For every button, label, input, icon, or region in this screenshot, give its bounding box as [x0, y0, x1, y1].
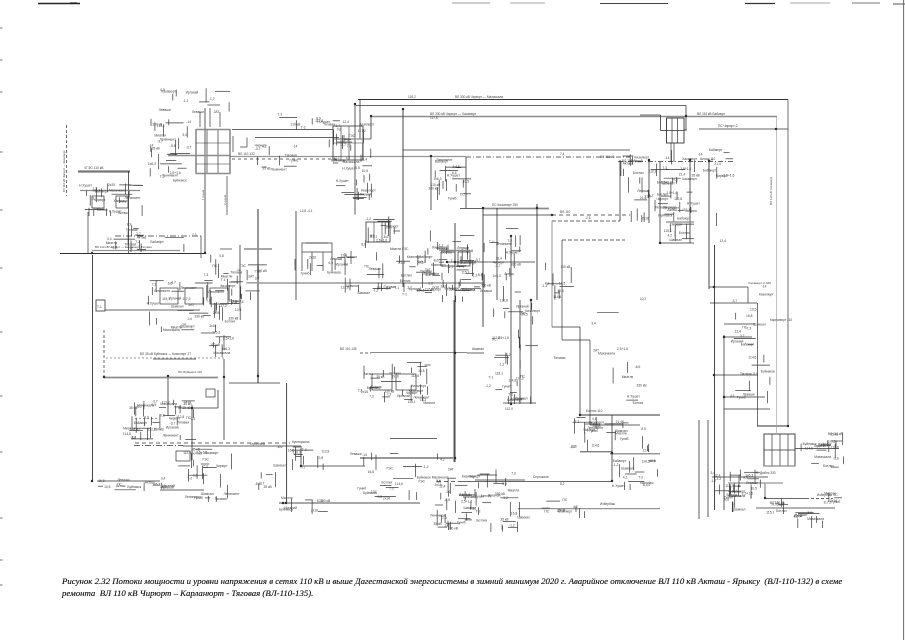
svg-text:ПС: ПС — [365, 264, 370, 268]
wire bottom long dashed — [437, 481, 612, 483]
svg-text:Н.Хушет: Н.Хушет — [447, 174, 460, 178]
svg-text:114,6: 114,6 — [591, 444, 599, 448]
svg-text:Т-2: Т-2 — [506, 353, 511, 357]
svg-text:Шамхал: Шамхал — [733, 507, 746, 511]
svg-text:1x6,3: 1x6,3 — [148, 162, 156, 166]
svg-text:Акташ 110: Акташ 110 — [700, 157, 716, 161]
svg-text:Акташ: Акташ — [504, 272, 514, 276]
svg-text:ВЛ-110-132: ВЛ-110-132 — [238, 152, 255, 156]
svg-text:Т-2: Т-2 — [302, 448, 307, 452]
svg-text:ВЛ 110 кВ: ВЛ 110 кВ — [770, 501, 785, 505]
svg-text:110 кВ: 110 кВ — [561, 265, 572, 269]
svg-text:-14: -14 — [665, 156, 670, 160]
svg-text:Ленинкент: Ленинкент — [436, 158, 453, 162]
svg-text:21,4: 21,4 — [398, 261, 405, 265]
svg-text:Махачкала: Махачкала — [109, 189, 126, 193]
svg-text:16,8: 16,8 — [288, 448, 295, 452]
substation cluster S — [469, 470, 530, 533]
scan marks top-right — [745, 2, 880, 5]
svg-text:Леваши: Леваши — [457, 246, 469, 250]
node box left top — [96, 300, 105, 311]
svg-text:Шамхал: Шамхал — [515, 397, 528, 401]
svg-text:4,2: 4,2 — [573, 505, 578, 509]
svg-text:ГЭС: ГЭС — [255, 269, 262, 273]
svg-text:35 кВ: 35 кВ — [692, 174, 701, 178]
svg-text:Чирюрт: Чирюрт — [216, 464, 228, 468]
svg-text:Ленинкент: Ленинкент — [224, 492, 241, 496]
comp far-right small — [832, 441, 842, 448]
svg-text:21,4: 21,4 — [714, 162, 721, 166]
svg-text:Т-2: Т-2 — [489, 240, 494, 244]
svg-text:3,4: 3,4 — [191, 417, 196, 421]
svg-text:Чирюрт: Чирюрт — [387, 225, 399, 229]
svg-text:7,3: 7,3 — [192, 233, 197, 237]
svg-text:12,4: 12,4 — [447, 265, 454, 269]
svg-text:ПС: ПС — [742, 326, 747, 330]
substation KES cluster — [302, 243, 332, 271]
svg-text:Т-2: Т-2 — [638, 476, 643, 480]
svg-text:330 кВ: 330 кВ — [511, 262, 522, 266]
svg-text:12,4: 12,4 — [643, 448, 650, 452]
wire big loop bottom corner — [757, 303, 788, 426]
svg-text:7,3: 7,3 — [345, 138, 350, 142]
svg-text:Махачкала: Махачкала — [343, 160, 360, 164]
svg-text:0,8: 0,8 — [160, 413, 165, 417]
svg-text:Ботлих: Ботлих — [633, 171, 644, 175]
svg-text:7,3: 7,3 — [347, 144, 352, 148]
substation cluster M — [710, 470, 745, 513]
substation Chiryurt box grid — [196, 130, 233, 174]
svg-text:-3,7: -3,7 — [111, 246, 117, 250]
svg-text:-14: -14 — [762, 284, 767, 288]
wire x520 vertical — [519, 300, 521, 404]
svg-text:Ботлих: Ботлих — [476, 518, 487, 522]
wire bottom right bus — [518, 508, 660, 510]
svg-text:Шамхал: Шамхал — [753, 323, 766, 327]
svg-text:Леваши: Леваши — [350, 452, 362, 456]
svg-text:7,4: 7,4 — [560, 152, 565, 156]
substation cluster bottom gray labels — [279, 496, 331, 514]
svg-text:Ботлих 110: Ботлих 110 — [586, 409, 603, 413]
wire y409 branch — [724, 408, 770, 410]
svg-text:-1,2: -1,2 — [209, 97, 215, 101]
svg-text:Миатли: Миатли — [622, 375, 634, 379]
svg-text:16,8: 16,8 — [418, 369, 425, 373]
bus stub right box bottom — [764, 465, 795, 467]
wire second horizontal — [356, 106, 686, 131]
svg-text:Ботлих: Ботлих — [371, 385, 382, 389]
svg-text:ВЛ-110-Л: ВЛ-110-Л — [622, 159, 635, 163]
wire y376 gray bus — [104, 359, 280, 440]
svg-text:ВЛ 110 кВ Бабаюрт: ВЛ 110 кВ Бабаюрт — [697, 112, 726, 116]
wire x240 vertical — [239, 245, 241, 310]
svg-text:Н.Хушет: Н.Хушет — [666, 206, 679, 210]
svg-text:-3,7: -3,7 — [495, 264, 501, 268]
substation cluster W — [815, 432, 843, 452]
svg-text:Буйнакск: Буйнакск — [279, 508, 293, 512]
svg-text:-3,7: -3,7 — [340, 143, 346, 147]
svg-text:Ирганай: Ирганай — [516, 304, 529, 308]
wire third horizontal gray — [370, 116, 777, 118]
svg-text:330 кВ: 330 кВ — [495, 492, 506, 496]
svg-text:16,8: 16,8 — [746, 314, 753, 318]
svg-text:3,4: 3,4 — [591, 322, 596, 326]
svg-text:2АТ: 2АТ — [188, 303, 194, 307]
substation cluster D3 — [204, 249, 233, 278]
svg-text:ГЭС: ГЭС — [419, 480, 426, 484]
svg-text:Шамхал: Шамхал — [621, 467, 634, 471]
wire y353 horizontal — [360, 352, 484, 355]
svg-text:Леваши: Леваши — [746, 481, 758, 485]
wire y477 right horizontal — [712, 476, 768, 478]
svg-text:Шамхал: Шамхал — [464, 506, 477, 510]
svg-text:Гуниб: Гуниб — [290, 159, 299, 163]
svg-text:117,6: 117,6 — [430, 116, 438, 120]
svg-text:Буйнакск: Буйнакск — [462, 288, 476, 292]
wire y451 horizontal — [580, 451, 612, 453]
svg-text:1 линия: 1 линия — [201, 189, 205, 200]
svg-text:8,2: 8,2 — [560, 482, 565, 486]
svg-text:Ирганай: Ирганай — [336, 262, 349, 266]
svg-text:ГЭС: ГЭС — [387, 467, 394, 471]
svg-text:Бабаюрт: Бабаюрт — [703, 168, 717, 172]
bus branch labels right — [731, 284, 776, 403]
svg-text:112,8: 112,8 — [500, 299, 508, 303]
wire left long vertical — [92, 255, 94, 481]
svg-text:35 кВ: 35 кВ — [264, 485, 273, 489]
substation cluster Q2 — [130, 418, 150, 440]
svg-text:Чирюрт: Чирюрт — [436, 246, 448, 250]
svg-text:-3,7: -3,7 — [186, 145, 192, 149]
substation cluster BB — [436, 246, 477, 280]
svg-text:4,2: 4,2 — [668, 234, 673, 238]
wire right long bus B — [714, 245, 716, 510]
svg-text:Кизилюрт: Кизилюрт — [221, 284, 236, 288]
wire x205 vertical — [204, 108, 206, 253]
svg-text:Шамхал: Шамхал — [273, 464, 286, 468]
svg-text:0,8: 0,8 — [798, 514, 803, 518]
svg-text:-8,6: -8,6 — [477, 273, 483, 277]
svg-text:Каспийск: Каспийск — [640, 481, 654, 485]
svg-text:117,2: 117,2 — [725, 484, 733, 488]
svg-text:112,8: 112,8 — [176, 415, 184, 419]
svg-text:115,1: 115,1 — [495, 372, 503, 376]
svg-text:Махачкала: Махачкала — [814, 455, 831, 459]
svg-text:Т-2: Т-2 — [508, 393, 513, 397]
wire x660 vertical — [659, 162, 661, 243]
wire feed to cluster B — [232, 129, 333, 131]
svg-text:330 кВ: 330 кВ — [194, 315, 205, 319]
svg-text:4,2: 4,2 — [440, 458, 445, 462]
svg-text:Ирганай: Ирганай — [166, 426, 179, 430]
svg-text:12,8 -4,1: 12,8 -4,1 — [300, 209, 313, 213]
svg-text:Н.Хушет: Н.Хушет — [336, 179, 349, 183]
svg-text:2,5+1,6: 2,5+1,6 — [723, 173, 734, 177]
labels col x695 y150 — [692, 148, 735, 243]
substation cluster above Buynaksk — [201, 330, 234, 357]
substation cluster D — [147, 278, 244, 332]
svg-text:7,3: 7,3 — [152, 283, 157, 287]
svg-text:35 кВ: 35 кВ — [192, 448, 201, 452]
svg-text:2,5+1,6: 2,5+1,6 — [742, 492, 753, 496]
svg-text:Кизилюрт: Кизилюрт — [411, 384, 426, 388]
substation cluster CC — [485, 303, 541, 404]
svg-text:Миатли ГЭС: Миатли ГЭС — [390, 247, 409, 251]
svg-text:Леваши: Леваши — [480, 289, 492, 293]
svg-text:-8,6: -8,6 — [277, 445, 283, 449]
svg-text:35 кВ: 35 кВ — [376, 375, 385, 379]
svg-text:3,4: 3,4 — [255, 276, 260, 280]
substation cluster N — [801, 440, 844, 468]
svg-text:2АТ: 2АТ — [520, 311, 526, 315]
wire y415 horizontal — [579, 414, 660, 416]
svg-text:112,8: 112,8 — [321, 450, 329, 454]
svg-text:ГЭС: ГЭС — [240, 264, 247, 268]
wire y356 label row — [106, 357, 225, 359]
svg-text:Ленинкент: Ленинкент — [125, 196, 142, 200]
svg-text:12,4: 12,4 — [714, 473, 721, 477]
svg-text:0,8: 0,8 — [219, 254, 224, 258]
svg-text:Шамхал: Шамхал — [670, 238, 683, 242]
svg-text:ВЛ 330 кВ Чирюрт — Махачкала: ВЛ 330 кВ Чирюрт — Махачкала — [455, 95, 503, 99]
svg-text:1x6,3: 1x6,3 — [418, 260, 426, 264]
wire x286 vertical — [286, 383, 288, 502]
svg-text:Бабаюрт: Бабаюрт — [419, 255, 433, 259]
svg-text:Гуниб: Гуниб — [737, 395, 746, 399]
wire y498 branch right — [765, 483, 833, 499]
svg-text:Кизилюрт: Кизилюрт — [462, 475, 477, 479]
svg-text:Т-2: Т-2 — [187, 477, 192, 481]
svg-text:2,5+1,6: 2,5+1,6 — [666, 191, 677, 195]
wire x455 long vertical — [454, 223, 456, 462]
svg-text:Буйнакск: Буйнакск — [658, 213, 672, 217]
svg-text:6,6: 6,6 — [329, 261, 334, 265]
svg-text:2x16: 2x16 — [311, 508, 318, 512]
svg-text:12,4: 12,4 — [735, 330, 742, 334]
svg-text:Махачкала: Махачкала — [807, 517, 824, 521]
svg-text:35 кВ: 35 кВ — [182, 406, 191, 410]
svg-text:2x16: 2x16 — [452, 165, 459, 169]
svg-text:115,1: 115,1 — [461, 270, 469, 274]
svg-text:Хасавюрт: Хасавюрт — [204, 451, 219, 455]
svg-text:Тяговая: Тяговая — [670, 222, 682, 226]
wire step to y137 — [240, 138, 247, 148]
wire y208 bus Kizilyurt — [460, 208, 549, 210]
svg-text:117,2: 117,2 — [332, 155, 340, 159]
svg-text:Леваши: Леваши — [117, 478, 129, 482]
substation cluster E — [341, 252, 434, 296]
substation cluster B — [329, 120, 376, 200]
svg-text:117,2: 117,2 — [219, 304, 227, 308]
wire left column dash — [66, 125, 68, 196]
svg-text:Бабаюрт: Бабаюрт — [709, 148, 723, 152]
svg-text:Махачкала: Махачкала — [598, 352, 615, 356]
svg-text:7,3: 7,3 — [278, 112, 283, 116]
svg-text:0,8: 0,8 — [319, 456, 324, 460]
substation cluster L — [664, 222, 694, 242]
wire right long bus A — [708, 161, 710, 289]
svg-text:Гуниб: Гуниб — [357, 487, 366, 491]
svg-text:10,5: 10,5 — [649, 459, 656, 463]
substation bottom center2 — [436, 468, 477, 531]
svg-text:Кумторкала: Кумторкала — [292, 440, 310, 444]
svg-text:-1,2: -1,2 — [499, 363, 505, 367]
svg-text:Н.Хушет: Н.Хушет — [627, 394, 640, 398]
svg-text:6,6: 6,6 — [743, 475, 748, 479]
svg-text:Чирюрт: Чирюрт — [583, 428, 595, 432]
scan corner top-right — [893, 0, 905, 640]
svg-text:Ботлих: Ботлих — [633, 401, 644, 405]
svg-text:Леваши: Леваши — [369, 267, 381, 271]
labels along y253 — [111, 233, 196, 252]
substation left boxes — [80, 191, 140, 209]
svg-text:-3,7: -3,7 — [157, 140, 163, 144]
svg-text:2,5+1,6: 2,5+1,6 — [459, 493, 470, 497]
svg-text:3,4: 3,4 — [502, 482, 507, 486]
svg-text:Ленинкент: Ленинкент — [430, 513, 447, 517]
svg-text:10,2: 10,2 — [640, 297, 646, 301]
wire x497 vertical — [496, 208, 498, 300]
svg-text:16,8: 16,8 — [98, 479, 105, 483]
wire nested corner 2 — [562, 240, 625, 340]
svg-text:ВЛ 110 кВ Хасавюрт: ВЛ 110 кВ Хасавюрт — [769, 176, 773, 205]
svg-text:8,9: 8,9 — [641, 427, 646, 431]
svg-text:114,6: 114,6 — [411, 374, 419, 378]
svg-text:-14: -14 — [187, 317, 192, 321]
svg-text:114,6: 114,6 — [395, 482, 403, 486]
wire gray right vertical — [776, 117, 778, 434]
svg-text:12,4: 12,4 — [343, 120, 350, 124]
svg-text:16,8: 16,8 — [511, 512, 518, 516]
wire y337 branch — [724, 336, 752, 338]
svg-text:Ирганай: Ирганай — [162, 484, 175, 488]
svg-text:-8,6: -8,6 — [170, 144, 176, 148]
svg-text:2,5+1,6: 2,5+1,6 — [461, 499, 472, 503]
svg-text:Гергебиль: Гергебиль — [250, 442, 265, 446]
substation cluster C — [79, 184, 143, 217]
svg-text:21,4: 21,4 — [640, 196, 647, 200]
svg-text:10,5: 10,5 — [317, 499, 324, 503]
comp small x350 — [346, 251, 357, 264]
svg-text:Ленинкент: Ленинкент — [496, 242, 513, 246]
svg-text:Гуниб: Гуниб — [620, 437, 629, 441]
wire x296 vertical — [295, 211, 297, 300]
svg-text:3,2: 3,2 — [740, 334, 745, 338]
svg-text:7,3: 7,3 — [369, 395, 374, 399]
svg-text:-1,2: -1,2 — [613, 463, 619, 467]
svg-text:Леваши: Леваши — [330, 257, 342, 261]
substation Gelbakh boxes — [441, 252, 470, 266]
wire x612 vertical — [611, 415, 613, 481]
wire y408 horizontal — [178, 407, 218, 409]
wire x355 vertical — [354, 104, 356, 215]
svg-text:2x16: 2x16 — [642, 217, 649, 221]
substation cluster M2 — [742, 470, 760, 499]
substation cluster O rows — [123, 399, 196, 440]
svg-text:-2,6: -2,6 — [585, 216, 591, 220]
wire y458 horizontal — [360, 457, 453, 459]
svg-text:-3,7: -3,7 — [170, 422, 176, 426]
svg-text:110 кВ: 110 кВ — [291, 122, 302, 126]
wire y481 label line — [97, 480, 160, 482]
svg-text:3,4: 3,4 — [161, 476, 166, 480]
svg-text:8,9: 8,9 — [127, 222, 132, 226]
substation cluster T — [542, 498, 585, 518]
svg-text:1x10: 1x10 — [184, 400, 191, 404]
svg-text:Тяговая: Тяговая — [554, 356, 566, 360]
svg-text:35 кВ: 35 кВ — [262, 167, 271, 171]
svg-text:10,5: 10,5 — [559, 282, 566, 286]
svg-text:2,5+1,6: 2,5+1,6 — [376, 239, 387, 243]
svg-text:12,4: 12,4 — [496, 256, 503, 260]
svg-text:110 кВ: 110 кВ — [210, 343, 221, 347]
svg-text:Сергокала: Сергокала — [533, 475, 549, 479]
substation cluster Z — [793, 511, 824, 528]
svg-text:4,2: 4,2 — [262, 145, 267, 149]
wire x511 vertical — [510, 236, 512, 404]
svg-text:115,1: 115,1 — [766, 510, 774, 514]
svg-text:12,4: 12,4 — [720, 239, 727, 243]
substation right-lower box grid — [764, 434, 795, 466]
wire x227 below box — [226, 176, 228, 215]
svg-text:114,6: 114,6 — [553, 295, 561, 299]
svg-text:ВЛ 110 кВ: ВЛ 110 кВ — [828, 432, 843, 436]
svg-text:7,3: 7,3 — [358, 388, 363, 392]
substation cluster H — [621, 150, 698, 177]
svg-text:-14: -14 — [181, 323, 186, 327]
substation cluster U — [570, 417, 650, 453]
svg-text:0,8: 0,8 — [206, 299, 211, 303]
wire box feed horizontal — [699, 128, 788, 130]
wire y490 cluster line — [160, 489, 204, 491]
svg-text:2x16: 2x16 — [209, 324, 216, 328]
svg-text:10,5: 10,5 — [750, 307, 757, 311]
substation cluster mid-left y230 — [106, 222, 146, 252]
wire y150 horizontal — [403, 149, 630, 151]
svg-text:3,4: 3,4 — [182, 133, 187, 137]
svg-text:ПС: ПС — [520, 374, 525, 378]
bus stub K area — [666, 221, 694, 223]
svg-text:Ботлих: Ботлих — [382, 480, 393, 484]
svg-text:Миатли: Миатли — [281, 496, 293, 500]
svg-text:ПС: ПС — [544, 510, 549, 514]
substation R boxes — [372, 374, 416, 390]
svg-text:10,5: 10,5 — [751, 486, 758, 490]
svg-text:7,3: 7,3 — [747, 327, 752, 331]
substation Buynaksk small box — [206, 389, 215, 397]
svg-text:ПС: ПС — [212, 264, 217, 268]
svg-text:110 кВ: 110 кВ — [431, 183, 442, 187]
svg-text:-3,7: -3,7 — [91, 196, 97, 200]
svg-text:35 кВ: 35 кВ — [434, 522, 443, 526]
svg-text:2АТ: 2АТ — [448, 468, 454, 472]
svg-text:Т-1: Т-1 — [394, 286, 399, 290]
wire y397 branch — [724, 396, 765, 398]
svg-text:Ботлих: Ботлих — [225, 319, 236, 323]
wire y253 left horizontal — [60, 251, 205, 254]
svg-text:Н.Хушет: Н.Хушет — [612, 484, 625, 488]
wire y448 far right — [795, 448, 839, 450]
svg-text:Гуниб: Гуниб — [301, 272, 310, 276]
svg-text:-8,6: -8,6 — [444, 498, 450, 502]
svg-text:Бабаюрт: Бабаюрт — [677, 216, 691, 220]
svg-text:-14: -14 — [362, 453, 367, 457]
svg-text:-3,7: -3,7 — [732, 299, 738, 303]
svg-text:ПС: ПС — [117, 483, 122, 487]
wire y446 dashdot long — [134, 446, 365, 467]
svg-text:330 кВ: 330 кВ — [428, 187, 439, 191]
svg-text:-1,2: -1,2 — [485, 384, 491, 388]
